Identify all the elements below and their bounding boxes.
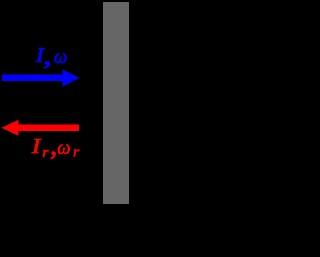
incident wave arrow (blue, rightward) [2, 70, 79, 87]
svg-text:ω: ω [54, 47, 67, 68]
svg-text:,: , [43, 41, 52, 70]
mirror slab [103, 2, 129, 204]
reflected wave arrow (red, leftward) [2, 120, 79, 136]
svg-text:r: r [73, 145, 80, 161]
svg-text:ω: ω [57, 137, 70, 159]
svg-text:r: r [42, 145, 49, 161]
svg-text:I: I [30, 134, 41, 158]
